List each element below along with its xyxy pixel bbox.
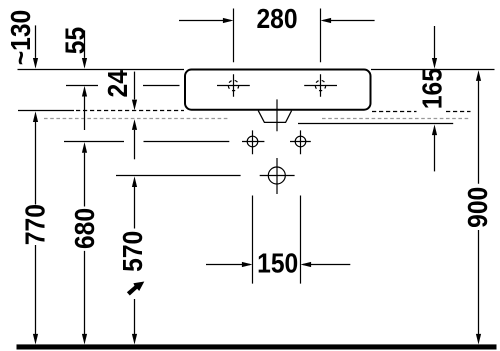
svg-text:770: 770 [19,204,51,245]
svg-text:150: 150 [257,247,298,279]
mounting holes center line [64,141,229,143]
drain hole circle [268,167,285,184]
faucet center line level 55 [66,85,180,87]
150 dimension line with arrows [206,264,350,266]
washbasin body [185,70,371,110]
rim level line right [371,69,495,71]
svg-text:680: 680 [69,208,101,249]
280 extension lines [234,9,321,63]
dim stem 900 [476,70,481,81]
dim stem 165 [434,26,436,58]
hidden bottom edge dashed right [372,111,471,113]
adjustable height arrow symbol [127,282,144,296]
570 reference line [116,175,241,177]
~130 lower reference line [18,110,74,112]
dim stem ~130 / 770 [35,25,37,58]
svg-text:165: 165 [416,68,448,109]
svg-text:55: 55 [59,27,91,54]
faucet hole left crosshair [217,74,250,96]
mounting hole left [247,136,258,147]
svg-text:570: 570 [116,231,148,272]
280 dimension line with arrows [179,20,375,22]
mounting hole right [295,136,306,147]
150 extension lines [253,196,301,284]
floor line [17,344,497,349]
svg-text:24: 24 [101,70,133,98]
dim stem 24 / 570 [134,72,136,100]
overflow trapezoid [258,111,291,123]
basin depth reference line 165 [298,123,453,125]
svg-text:~130: ~130 [5,10,37,65]
dim stem 55 / 680 [84,30,86,58]
drain vertical center line [276,99,278,194]
rim level line left [18,69,185,71]
faucet hole right crosshair [304,74,337,96]
svg-text:280: 280 [256,3,297,35]
svg-text:900: 900 [462,187,494,228]
hidden bottom edge dashed left [76,110,184,112]
gray hidden line [44,118,228,120]
